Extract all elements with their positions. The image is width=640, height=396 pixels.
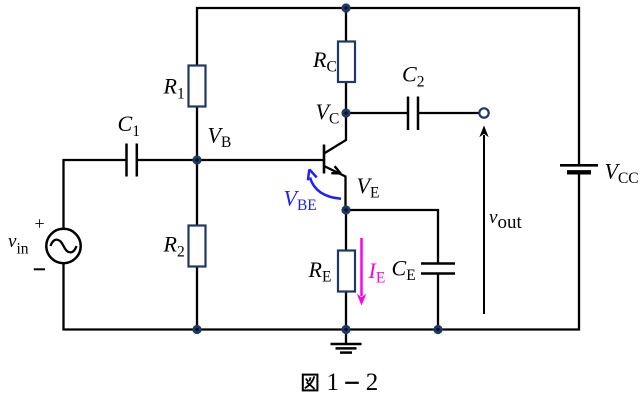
capacitor C2	[408, 97, 418, 131]
wire: R1 bottom to VB	[196, 107, 198, 161]
node: R2 bottom junction	[192, 325, 201, 334]
node VE	[341, 205, 350, 214]
svg-text:+: +	[35, 214, 45, 234]
wire: R2 bottom to bottom rail	[196, 267, 198, 330]
arrow IE (emitter current)	[357, 238, 366, 306]
wire: VE to RE top	[345, 210, 347, 251]
capacitor CE	[421, 264, 455, 274]
resistor RC	[338, 42, 355, 83]
resistor RE	[338, 251, 355, 292]
ground	[331, 330, 362, 353]
svg-text:2: 2	[366, 369, 379, 396]
label: source minus sign	[34, 268, 45, 270]
wire: input top (source to C1)	[64, 160, 126, 229]
caption: kanji ZU (figure) drawn as strokes	[303, 375, 318, 391]
svg-text:1: 1	[327, 369, 340, 396]
node VB	[192, 155, 201, 164]
wire: C2 to output terminal	[419, 112, 480, 114]
node: emitter/ground junction	[341, 325, 350, 334]
wire: RC top branch	[345, 8, 347, 42]
resistor R1	[189, 66, 206, 107]
arrow vout	[479, 125, 488, 314]
wire: base wire VB to transistor	[197, 159, 323, 161]
transistor Q1	[324, 113, 346, 210]
wire: VC to C2	[346, 112, 407, 114]
ac source vin	[46, 229, 80, 263]
output terminal (open circle)	[479, 108, 488, 117]
node VC	[341, 108, 350, 117]
wire: VB to R2 top	[196, 160, 198, 226]
capacitor C1	[127, 144, 137, 177]
wire: bottom rail with left rail and right rail lower	[64, 174, 580, 330]
wire: VE to CE branch	[346, 210, 438, 263]
wire: C1 to node VB	[138, 159, 198, 161]
wire: top rail with R1 branch and right rail upper	[197, 8, 579, 164]
wire: CE bottom to bottom rail	[437, 274, 439, 330]
node: CE bottom junction	[433, 325, 442, 334]
resistor R2	[189, 226, 206, 267]
wire: RE bottom to bottom rail	[345, 292, 347, 330]
arrow VBE (base-emitter voltage)	[308, 169, 341, 199]
wire: RC bottom to VC	[345, 82, 347, 113]
node: top junction	[341, 3, 350, 12]
battery VCC	[560, 165, 598, 172]
